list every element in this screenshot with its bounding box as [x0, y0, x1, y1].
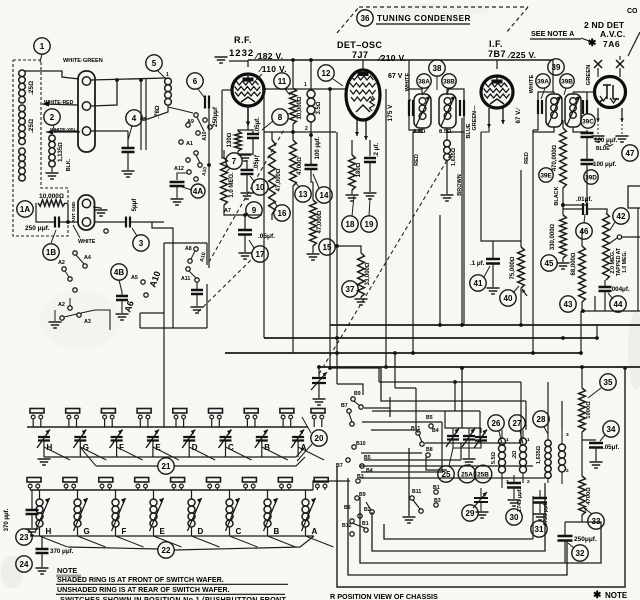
- wire nest loop 4: [372, 483, 545, 551]
- coil 3.5 ohm RF plate: [307, 90, 315, 122]
- wire B9 rung: [364, 397, 390, 417]
- wire IF tube top: [496, 60, 498, 69]
- svg-text:SWITCHES SHOWN IN POSITION No: SWITCHES SHOWN IN POSITION No 1 (PUSHBUT…: [60, 595, 287, 600]
- wire 4B cap down: [121, 300, 123, 313]
- svg-text:22: 22: [162, 546, 171, 555]
- callout 32: [572, 545, 588, 561]
- contact A extra: [104, 229, 108, 233]
- blade A8: [191, 251, 195, 259]
- trimmer capacitor bank1 E: [146, 430, 159, 449]
- ground padder: [313, 399, 326, 405]
- junction x563 bus: [561, 336, 565, 340]
- capacitor .05 uf output: [589, 443, 603, 448]
- wire coil28 down: [547, 478, 549, 483]
- wire nest rung y411: [372, 410, 480, 412]
- svg-text:CO: CO: [627, 8, 638, 15]
- svg-text:B: B: [274, 527, 280, 536]
- primary winding 1135 ohm: [49, 135, 55, 167]
- svg-text:B4: B4: [366, 468, 373, 474]
- callout 40: [500, 290, 516, 306]
- capacitor T2 secondary trim: [583, 100, 587, 114]
- wire riser x418: [417, 430, 419, 433]
- svg-text:18: 18: [346, 220, 355, 229]
- svg-text:100 μμf.: 100 μμf.: [593, 161, 617, 168]
- junction padder bus: [317, 365, 321, 369]
- wire bank2 G down: [77, 527, 79, 536]
- coil arrow bank2 D: [188, 498, 202, 531]
- wire bank2 E down: [153, 527, 155, 536]
- trimmer capacitor 29: [473, 492, 488, 508]
- svg-text:2: 2: [566, 468, 569, 474]
- junction y132 a: [291, 130, 295, 134]
- wire B11 arm down: [408, 448, 410, 516]
- wire T1 secondary top: [447, 89, 464, 100]
- pot wiper terminal: [617, 235, 621, 239]
- junction x330 y368: [328, 366, 332, 370]
- wire .004 to y311: [594, 296, 596, 311]
- wire to trimmer caps: [445, 411, 453, 428]
- svg-text:39E: 39E: [540, 172, 552, 179]
- wire gnd stub to grid cap: [229, 60, 248, 62]
- wire nest feed left: [330, 367, 381, 369]
- trimmer capacitor bank1 B: [255, 430, 268, 449]
- capacitor .2 uf det cathode: [364, 158, 376, 162]
- callout 9: [246, 202, 262, 218]
- junction choke B+: [309, 58, 313, 62]
- svg-text:39B: 39B: [561, 78, 573, 85]
- svg-text:30: 30: [510, 513, 519, 522]
- trimmer unit housing 3 bank2: [99, 478, 113, 491]
- junction x462 y368: [460, 366, 464, 370]
- contact A9 left: [186, 123, 190, 127]
- pointer 38B: [447, 88, 449, 95]
- wire bank2 D down: [191, 527, 193, 536]
- tube V2 DET-OSC 7J7: [346, 70, 380, 120]
- wire diode 2 lead: [619, 68, 621, 77]
- wire 1meg top: [223, 150, 225, 158]
- contact B point 12: [426, 453, 430, 457]
- wire long vertical x462: [461, 118, 463, 325]
- svg-text:A9: A9: [187, 119, 194, 125]
- svg-text:1: 1: [40, 42, 45, 51]
- diode plate mark 2: [616, 60, 624, 68]
- wire box right lower: [206, 284, 208, 328]
- wire trim25A down: [468, 440, 470, 458]
- svg-text:28: 28: [537, 415, 546, 424]
- ground RF grid shield: [215, 57, 228, 63]
- wire coil26 up: [501, 430, 503, 438]
- callout 18: [342, 216, 358, 232]
- svg-text:.05μf.: .05μf.: [258, 233, 275, 240]
- wire bank1 A diag: [298, 447, 324, 460]
- svg-text:4A: 4A: [193, 187, 203, 196]
- wire B9 feed2: [337, 384, 363, 395]
- junction x209: [207, 163, 211, 167]
- wire nest rung y460: [364, 459, 461, 461]
- capacitor .05 uf screen bypass: [241, 170, 254, 174]
- wire bank1 D down: [188, 441, 190, 457]
- wire T1 cap1 bottom: [409, 116, 422, 130]
- pointer 41: [484, 266, 490, 277]
- contact A2L b: [77, 313, 81, 317]
- wire bank1 H down: [43, 441, 45, 457]
- pointer 19: [369, 198, 370, 216]
- coil arrow bank2 B: [264, 498, 278, 531]
- wire nest loop 2: [348, 478, 567, 575]
- wire 68k top: [581, 230, 583, 246]
- ground 29: [476, 512, 489, 518]
- svg-text:C: C: [236, 527, 242, 536]
- callout 11: [274, 73, 290, 89]
- dashed shield box antenna coil: [13, 60, 68, 236]
- junction det out: [561, 203, 565, 207]
- capacitor 1745 uuf padder: [507, 483, 521, 488]
- wire A11 cap: [196, 282, 198, 290]
- svg-text:SHADED RING IS AT FRONT OF SWI: SHADED RING IS AT FRONT OF SWITCH WAFER.: [57, 576, 224, 584]
- ground A11 cap: [191, 307, 204, 313]
- oscillator padding coil 5.5 ohm: [499, 438, 506, 473]
- contact B point 6: [360, 464, 364, 468]
- wire nest rung y422: [362, 421, 442, 423]
- callout 35: [600, 374, 616, 390]
- callout 1 antenna coil: [34, 38, 50, 54]
- wire 370a top: [31, 490, 33, 510]
- wire bus y353: [225, 352, 581, 354]
- ground 370a: [26, 529, 39, 535]
- svg-text:.01μf.: .01μf.: [576, 196, 592, 203]
- capacitor 100 uuf det 1: [581, 133, 594, 137]
- svg-text:7B7: 7B7: [488, 49, 506, 59]
- callout 25: [438, 466, 454, 482]
- svg-text:370 μμf.: 370 μμf.: [50, 548, 74, 555]
- capacitor 4A: [170, 182, 185, 186]
- wire nest rung y478: [360, 477, 545, 479]
- svg-text:1232: 1232: [229, 48, 254, 59]
- svg-text:B9: B9: [354, 391, 361, 397]
- contact A12 b: [186, 158, 190, 162]
- wire nest x416 drop: [415, 388, 417, 429]
- wire nest rung y453: [361, 452, 422, 454]
- feed already drawn: [163, 400, 165, 427]
- wire .1uf top: [492, 241, 494, 259]
- wire bank2 lower bus: [30, 535, 314, 537]
- wire T2 primary bottom: [533, 127, 554, 132]
- wire 370b down: [41, 553, 43, 567]
- callout 28: [533, 411, 549, 427]
- wire to 180 ohm: [351, 140, 353, 155]
- svg-text:31: 31: [535, 525, 544, 534]
- svg-text:1.0 MEG.: 1.0 MEG.: [229, 172, 235, 198]
- resistor 470,000 ohm diode load: [560, 128, 567, 188]
- pointer from 1: [40, 54, 42, 62]
- svg-text:.25Ω: .25Ω: [28, 81, 35, 95]
- wire bank1 right hook: [296, 447, 305, 457]
- wire bank1 G down: [79, 441, 81, 457]
- wire 29 down: [480, 502, 482, 511]
- wire long vertical x330: [329, 89, 331, 368]
- wire between 100uuf caps: [586, 137, 588, 160]
- svg-text:44: 44: [614, 300, 623, 309]
- wire 47k osc top: [312, 182, 314, 200]
- junction y80 b: [139, 78, 143, 82]
- svg-text:39A: 39A: [537, 78, 549, 85]
- capacitor T1 primary trim: [409, 100, 413, 116]
- coil bank2 F: [112, 499, 119, 527]
- svg-text:UNSHADED RING IS AT REAR OF S: UNSHADED RING IS AT REAR OF SWITCH WAFER…: [57, 586, 230, 594]
- wire A2L up: [69, 298, 71, 306]
- svg-text:35: 35: [604, 378, 613, 387]
- wire vertical x146: [145, 79, 147, 150]
- contact A6 b: [144, 293, 148, 297]
- svg-text:.05μf.: .05μf.: [255, 117, 261, 133]
- wire white-yel lead: [46, 131, 80, 133]
- contact B point 5: [352, 445, 356, 449]
- trimmer unit housing 9 bank1: [311, 409, 325, 428]
- capacitor 4B: [116, 296, 128, 300]
- trimmer unit housing 2 bank1: [66, 409, 80, 428]
- blade A2 upper: [65, 271, 69, 277]
- wire 21 left: [96, 465, 158, 467]
- wire B5 to coils: [426, 457, 447, 470]
- ground .1uf: [487, 288, 500, 294]
- svg-text:SEE NOTE A: SEE NOTE A: [531, 29, 574, 38]
- note line2 underline: [56, 593, 285, 595]
- wire nest loop 5: [384, 524, 533, 539]
- trimmer unit housing 1 bank1: [30, 409, 44, 428]
- callout 38: [429, 60, 445, 76]
- wire .004 bottom: [604, 291, 606, 311]
- wire bank2 H diag: [40, 536, 68, 547]
- coil arrow bank2 A: [302, 498, 316, 531]
- svg-text:7: 7: [232, 157, 237, 166]
- callout 39E: [539, 168, 553, 182]
- wire coil28 feed: [547, 382, 549, 430]
- wire nest rung y382: [379, 381, 521, 383]
- svg-text:3: 3: [566, 432, 569, 438]
- contact B point 3: [347, 409, 351, 413]
- resistor 130 ohm cathode: [235, 131, 242, 151]
- wire T1 sec stub: [446, 89, 448, 94]
- callout 25A: [458, 465, 476, 483]
- wire down to C17: [244, 215, 246, 229]
- svg-text:39C: 39C: [582, 118, 594, 125]
- junction x533 bus: [531, 351, 535, 355]
- coil .78 ohm RF grid: [165, 78, 172, 105]
- oscillator coil 1635 ohm: [545, 440, 551, 478]
- svg-text:BLACK: BLACK: [554, 186, 560, 205]
- wire cathode to R 130: [238, 126, 248, 131]
- svg-text:DET–OSC: DET–OSC: [337, 40, 382, 50]
- ground cap 4: [122, 171, 135, 177]
- wire nest link y388: [395, 387, 416, 389]
- ground 47k osc: [307, 254, 320, 260]
- wire 22 left: [68, 547, 158, 549]
- callout 39: [548, 59, 564, 75]
- svg-text:A7: A7: [224, 208, 231, 214]
- wire box left: [139, 313, 141, 328]
- blade A12: [196, 155, 200, 163]
- capacitor 100 uuf coupling: [305, 165, 318, 169]
- wire 470k bottom: [562, 188, 564, 215]
- svg-text:33,000Ω: 33,000Ω: [365, 262, 371, 285]
- wire bank2 G diag: [78, 536, 106, 547]
- svg-text:27: 27: [513, 419, 522, 428]
- junction x330 plate wire: [328, 87, 332, 91]
- contact A8 b: [188, 259, 192, 263]
- pointer 26 lead: [499, 431, 502, 444]
- callout 33: [588, 513, 604, 529]
- junction B+ screen: [291, 58, 295, 62]
- wire 33k gnd stub: [360, 297, 362, 298]
- callout 19: [361, 216, 377, 232]
- wire T1 primary top: [409, 89, 422, 94]
- wire bank2 F diag: [116, 536, 144, 547]
- wire to .2uf: [369, 140, 371, 156]
- wire 4700 top: [292, 132, 294, 140]
- callout 21: [158, 458, 174, 474]
- svg-text:A.V.C.: A.V.C.: [600, 29, 625, 39]
- coil bank2 E: [150, 499, 157, 527]
- arrow white-red tap: [42, 102, 49, 107]
- svg-text:A2: A2: [58, 302, 65, 308]
- pointer 4: [128, 126, 132, 140]
- trimmer capacitor 25: [446, 429, 459, 448]
- callout 3: [133, 235, 149, 251]
- svg-text:47: 47: [626, 149, 635, 158]
- callout 1A: [17, 201, 33, 217]
- pointer 28 lead: [544, 427, 548, 434]
- wire diode feed: [619, 56, 621, 60]
- callout 20: [311, 430, 327, 446]
- contact A4 a: [73, 251, 77, 255]
- callout 37: [342, 281, 358, 297]
- svg-text:B5: B5: [426, 415, 433, 421]
- wire bank1 F down: [116, 441, 118, 457]
- svg-text:19: 19: [365, 220, 374, 229]
- svg-text:14: 14: [320, 191, 329, 200]
- svg-text:.25Ω: .25Ω: [28, 119, 35, 133]
- svg-text:40: 40: [504, 294, 513, 303]
- contact A3 a: [60, 316, 64, 320]
- junction 75k bus: [519, 323, 523, 327]
- ground 31: [534, 514, 547, 520]
- pointer 13: [295, 182, 299, 187]
- ground bank1 H: [38, 459, 51, 465]
- switch wafer W2 ANT GND: [78, 195, 95, 230]
- svg-text:1,635Ω: 1,635Ω: [451, 148, 457, 166]
- wire bank2 right feed: [313, 481, 350, 490]
- callout 8: [272, 109, 288, 125]
- ground 33k: [355, 299, 368, 305]
- wire 1000 bottom: [582, 432, 596, 440]
- resistor 33,000 ohm osc: [358, 253, 365, 297]
- svg-text:45: 45: [545, 259, 554, 268]
- svg-text:B4: B4: [432, 428, 439, 434]
- coil arrow bank2 C: [226, 498, 240, 531]
- pointer 3: [132, 228, 137, 236]
- wire cap6 down x209: [208, 102, 210, 268]
- resistor 47,000 ohm osc grid: [310, 200, 317, 246]
- svg-text:B8: B8: [426, 447, 433, 453]
- antenna coil winding 3: [19, 148, 26, 181]
- wire nest path 1: [381, 368, 526, 401]
- svg-text:41: 41: [474, 279, 483, 288]
- svg-text:✱: ✱: [593, 590, 602, 600]
- pointer 38A: [422, 87, 429, 95]
- wire white-green lead: [24, 71, 79, 79]
- svg-text:470,000Ω: 470,000Ω: [552, 144, 558, 171]
- svg-text:12: 12: [322, 69, 331, 78]
- svg-text:38: 38: [433, 64, 442, 73]
- callout 23: [16, 529, 32, 545]
- wire coil4 up: [561, 430, 563, 444]
- coil arrow bank2 E: [150, 498, 164, 531]
- svg-text:175 V: 175 V: [387, 104, 394, 122]
- wire bank1 A down: [297, 441, 299, 457]
- trimmer unit housing 8 bank1: [280, 409, 294, 428]
- trimmer capacitor bank1 C: [219, 430, 232, 449]
- ground 180 ohm: [346, 195, 359, 201]
- wire 370a down: [31, 514, 33, 528]
- wire cathode to C .05: [248, 130, 253, 133]
- svg-text:5μμf: 5μμf: [132, 198, 138, 212]
- svg-text:B12: B12: [342, 523, 352, 529]
- wire 33k top: [337, 246, 361, 253]
- wire riser x480: [479, 411, 481, 443]
- arrow 7A6 k1: [596, 108, 600, 122]
- callout 5: [146, 55, 162, 71]
- svg-text:100 μμf.: 100 μμf.: [315, 136, 321, 159]
- wire T2 B+ feed: [552, 60, 554, 92]
- svg-text:1A: 1A: [20, 205, 30, 214]
- wire bank2 C top: [229, 490, 231, 499]
- wire bank1 B down: [261, 441, 263, 457]
- svg-text:A3: A3: [84, 319, 91, 325]
- svg-text:WHITE·GREEN: WHITE·GREEN: [63, 58, 103, 64]
- wire screen resistor top: [292, 60, 294, 88]
- contact A4 b: [83, 264, 87, 268]
- wire 21 hook: [80, 447, 96, 466]
- ground B11 arm: [403, 517, 416, 523]
- wire .1uf bottom: [492, 263, 494, 287]
- wire T2 primary top: [538, 92, 554, 100]
- wire 470k top: [562, 120, 564, 128]
- svg-text:20: 20: [315, 434, 324, 443]
- wire 47k top: [271, 132, 273, 140]
- pointer 1B: [51, 230, 56, 243]
- wire osc coil top: [446, 132, 448, 140]
- resistor 1000 ohm: [579, 388, 586, 432]
- wire bank2 C diag: [230, 536, 258, 547]
- svg-text:4700Ω: 4700Ω: [586, 487, 592, 505]
- contact A2 a: [62, 267, 66, 271]
- trimmer capacitor 25A: [462, 429, 475, 448]
- svg-text:8: 8: [278, 113, 283, 122]
- svg-text:2: 2: [50, 113, 55, 122]
- capacitor 5 uuf coupling: [126, 217, 130, 228]
- wire bank2 B diag: [268, 536, 296, 547]
- resistor 330,000 ohm AVC: [560, 215, 567, 258]
- wire trim25B stub: [480, 428, 482, 433]
- note line1 underline: [56, 583, 288, 585]
- wire 1meg bottom to A7: [224, 205, 262, 215]
- junction y80 a: [115, 78, 119, 82]
- wire bank1 lower bus: [44, 456, 296, 458]
- capacitor .05 uf AVC filter: [238, 230, 252, 235]
- wire det-osc top: [362, 60, 364, 72]
- ground cathode RF: [239, 155, 252, 161]
- underline see note a: [530, 38, 581, 40]
